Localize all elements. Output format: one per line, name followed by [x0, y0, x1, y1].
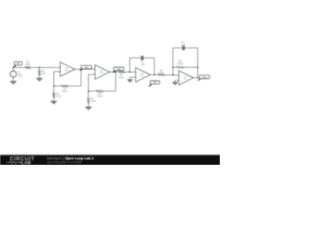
wire R4 to ground	[53, 97, 55, 101]
wire R9 rail left segment	[173, 66, 177, 68]
wire cap loop 3 top left	[130, 57, 142, 59]
flag Vo2 node label	[112, 67, 124, 73]
svg-text:1μF: 1μF	[181, 44, 186, 46]
ground below V1	[10, 81, 16, 84]
wire feedback vertical to op-amp2 output	[115, 72, 117, 91]
wire op-amp3 ground stem	[129, 77, 131, 79]
wire R4 top	[53, 86, 55, 92]
ground at op-amp3 input	[127, 80, 132, 83]
flag Vo1 node label	[79, 65, 91, 70]
ground at op-amp4 input	[172, 82, 177, 85]
flag Vin node label	[14, 62, 23, 68]
wire R2 to ground	[38, 75, 40, 78]
wire op-amp1 inverting input bend vertical	[53, 72, 55, 86]
svg-text:100kΩ: 100kΩ	[177, 64, 184, 66]
op-amp OA2	[95, 65, 110, 79]
resistor R9	[176, 66, 184, 68]
op-amp OA1	[60, 62, 75, 76]
svg-text:ideal: ideal	[100, 73, 104, 75]
wire op-amp4 ground stem	[174, 80, 176, 82]
flag Vo3 node label	[148, 81, 159, 87]
ground below R4	[51, 101, 57, 104]
resistor R5	[87, 97, 89, 103]
svg-text:Vo2: Vo2	[117, 69, 120, 71]
svg-text:Vo1: Vo1	[85, 67, 88, 69]
svg-text:1 1k): 1 1k)	[18, 77, 23, 79]
wire cap loop 3 right vertical	[153, 58, 155, 75]
node J junction dot on R9 rail left	[172, 67, 173, 68]
svg-text:ideal: ideal	[65, 70, 69, 72]
svg-text:ideal: ideal	[183, 79, 187, 81]
wire feedback rail2 left segment	[88, 90, 95, 92]
wire R5 to ground	[87, 103, 89, 107]
svg-text:10kΩ: 10kΩ	[158, 73, 164, 75]
wire source to R1	[13, 67, 25, 69]
wire op-amp3 noninverting stub	[130, 76, 136, 78]
op-amp OA4	[179, 71, 194, 85]
node K junction dot on R9 rail right	[197, 67, 198, 68]
node H junction dot	[154, 74, 155, 75]
svg-text:1kΩ: 1kΩ	[41, 74, 45, 76]
resistor R6	[96, 90, 104, 92]
svg-text:Vout: Vout	[203, 76, 207, 79]
node F junction dot	[115, 71, 116, 72]
wire op-amp2 output	[110, 71, 118, 73]
svg-text:1μF: 1μF	[141, 65, 146, 67]
wire op-amp2 inverting input bend vertical	[87, 74, 89, 91]
wire node B to op-amp1	[39, 67, 60, 69]
resistor R4	[53, 92, 55, 97]
wire R5 top	[87, 91, 89, 97]
node A junction dot at source	[13, 67, 14, 68]
wire feedback vertical to op-amp1 output	[80, 69, 82, 86]
node B junction dot	[39, 67, 40, 68]
svg-text:10kΩ: 10kΩ	[118, 77, 124, 79]
flag Vout node label	[197, 75, 209, 81]
op-amp OA3	[136, 68, 151, 82]
node C junction dot on feedback rail	[53, 85, 54, 86]
svg-text:http://circuitlab.com/c6f9j8: http://circuitlab.com/c6f9j8	[47, 160, 82, 164]
wire op-amp1 inverting input bend horizontal	[54, 71, 60, 73]
svg-text:10kΩ: 10kΩ	[25, 64, 31, 66]
wire R9 rail right segment	[184, 66, 198, 68]
voltage source V1	[10, 71, 16, 78]
wire op-amp2 inverting input bend horizontal	[88, 73, 95, 75]
wire RC loop left vertical	[172, 48, 174, 75]
ground below R5	[85, 107, 91, 110]
wire R8 to node I	[165, 74, 179, 77]
capacitor C1	[142, 56, 143, 61]
resistor R3	[61, 85, 68, 87]
wire feedback rail2 right segment	[103, 90, 115, 92]
node E junction dot on feedback rail 2	[88, 90, 89, 91]
svg-text:10kΩ: 10kΩ	[90, 101, 96, 103]
wire R1 to node B	[30, 67, 39, 69]
capacitor C2	[183, 46, 184, 51]
wire V1 top stub	[12, 68, 14, 71]
wire cap loop 4 top right	[184, 47, 197, 49]
svg-text:ideal: ideal	[140, 76, 144, 78]
resistor R8	[158, 74, 165, 76]
ground below R2	[36, 78, 42, 81]
wire op-amp4 output	[193, 77, 198, 79]
wire node B down to R2	[38, 68, 40, 70]
svg-text:10kΩ: 10kΩ	[62, 91, 68, 93]
wire cap loop 3 left vertical	[129, 58, 131, 72]
wire op-amp4 noninverting stub	[175, 79, 179, 81]
wire feedback rail right segment	[68, 85, 81, 87]
node G junction dot	[129, 71, 130, 72]
wire R7 to node G	[125, 71, 136, 73]
footer bar	[0, 155, 220, 165]
node L junction dot	[197, 77, 198, 78]
CircuitLab logo square glyph	[20, 162, 21, 163]
wire RC loop right vertical	[197, 48, 199, 78]
node D junction dot	[80, 69, 81, 70]
wire op-amp1 output	[75, 68, 95, 70]
resistor R7	[118, 71, 124, 73]
svg-text:10kΩ: 10kΩ	[97, 96, 103, 98]
resistor R1	[25, 66, 30, 68]
resistor R2	[38, 70, 40, 75]
wire cap loop 3 top right	[143, 57, 154, 59]
wire op-amp3 output	[150, 74, 158, 76]
svg-text:LAB: LAB	[21, 160, 31, 165]
CircuitLab logo resistor zigzag	[7, 161, 20, 163]
wire cap loop 4 top left	[173, 47, 183, 49]
svg-text:10kΩ: 10kΩ	[56, 96, 62, 98]
node I junction dot	[172, 74, 173, 75]
svg-text:Vin: Vin	[17, 63, 20, 65]
wire feedback rail left segment	[54, 85, 61, 87]
svg-text:Vo3: Vo3	[153, 82, 156, 84]
wire V1 bottom stub	[12, 77, 14, 81]
